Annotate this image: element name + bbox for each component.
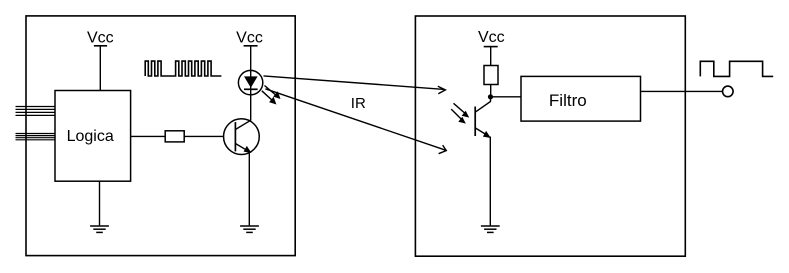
output terminal [723, 86, 734, 97]
transistor Q1 [224, 119, 260, 155]
wire Vcc through LED to Q1 collector [250, 46, 252, 121]
LED D1 (IR emitter) [238, 70, 262, 94]
input bus lines (lower group) [16, 134, 56, 140]
node junction dot [488, 94, 493, 99]
modulated pulse train waveform [145, 61, 221, 76]
wire node to Q2 collector [475, 97, 490, 112]
ground (under Q2) [481, 226, 500, 232]
svg-text:Logica: Logica [67, 128, 114, 145]
filter block U2 "Filtro" [521, 76, 641, 121]
input bus lines (upper group) [16, 107, 56, 116]
wire R2 to node [490, 85, 492, 97]
receiver enclosure box [415, 16, 685, 256]
wire R1 to Q1 base [184, 135, 223, 137]
received IR arrow (lower) into Q2 [451, 109, 466, 124]
Vcc supply symbol (over LED) [236, 29, 263, 46]
resistor R2 (pull-up) [484, 66, 498, 85]
wire node to Filtro [491, 96, 522, 98]
wire Q2 emitter to ground [489, 137, 491, 226]
wire Q1 emitter to ground [248, 152, 250, 226]
logic block U1 "Logica" [55, 91, 131, 182]
svg-text:Vcc: Vcc [478, 29, 505, 46]
wire Vcc to Logica [99, 46, 101, 91]
ground (under Logica) [90, 226, 109, 232]
svg-text:Vcc: Vcc [87, 29, 114, 46]
LED emission arrow (lower) [262, 91, 277, 105]
svg-text:IR: IR [351, 95, 366, 112]
wire Vcc to R2 [490, 47, 492, 66]
IR beam arrow (lower) [265, 89, 446, 154]
Vcc supply symbol (receiver) [478, 29, 505, 47]
wire Logica to ground [99, 181, 101, 225]
wire Filtro to output terminal [641, 90, 723, 92]
ground (under Q1) [240, 226, 259, 232]
svg-text:Vcc: Vcc [236, 29, 263, 46]
demodulated output waveform [700, 61, 773, 76]
transmitter enclosure box [26, 16, 295, 256]
Vcc supply symbol (over Logica) [87, 29, 114, 46]
resistor R1 [165, 131, 184, 142]
IR beam arrow (upper) [264, 76, 446, 94]
wire Logica to R1 [131, 135, 166, 137]
svg-text:Filtro: Filtro [549, 91, 587, 110]
phototransistor Q2 [475, 107, 491, 139]
LED emission arrow (upper) [265, 86, 281, 100]
received IR arrow (upper) into Q2 [454, 103, 470, 117]
